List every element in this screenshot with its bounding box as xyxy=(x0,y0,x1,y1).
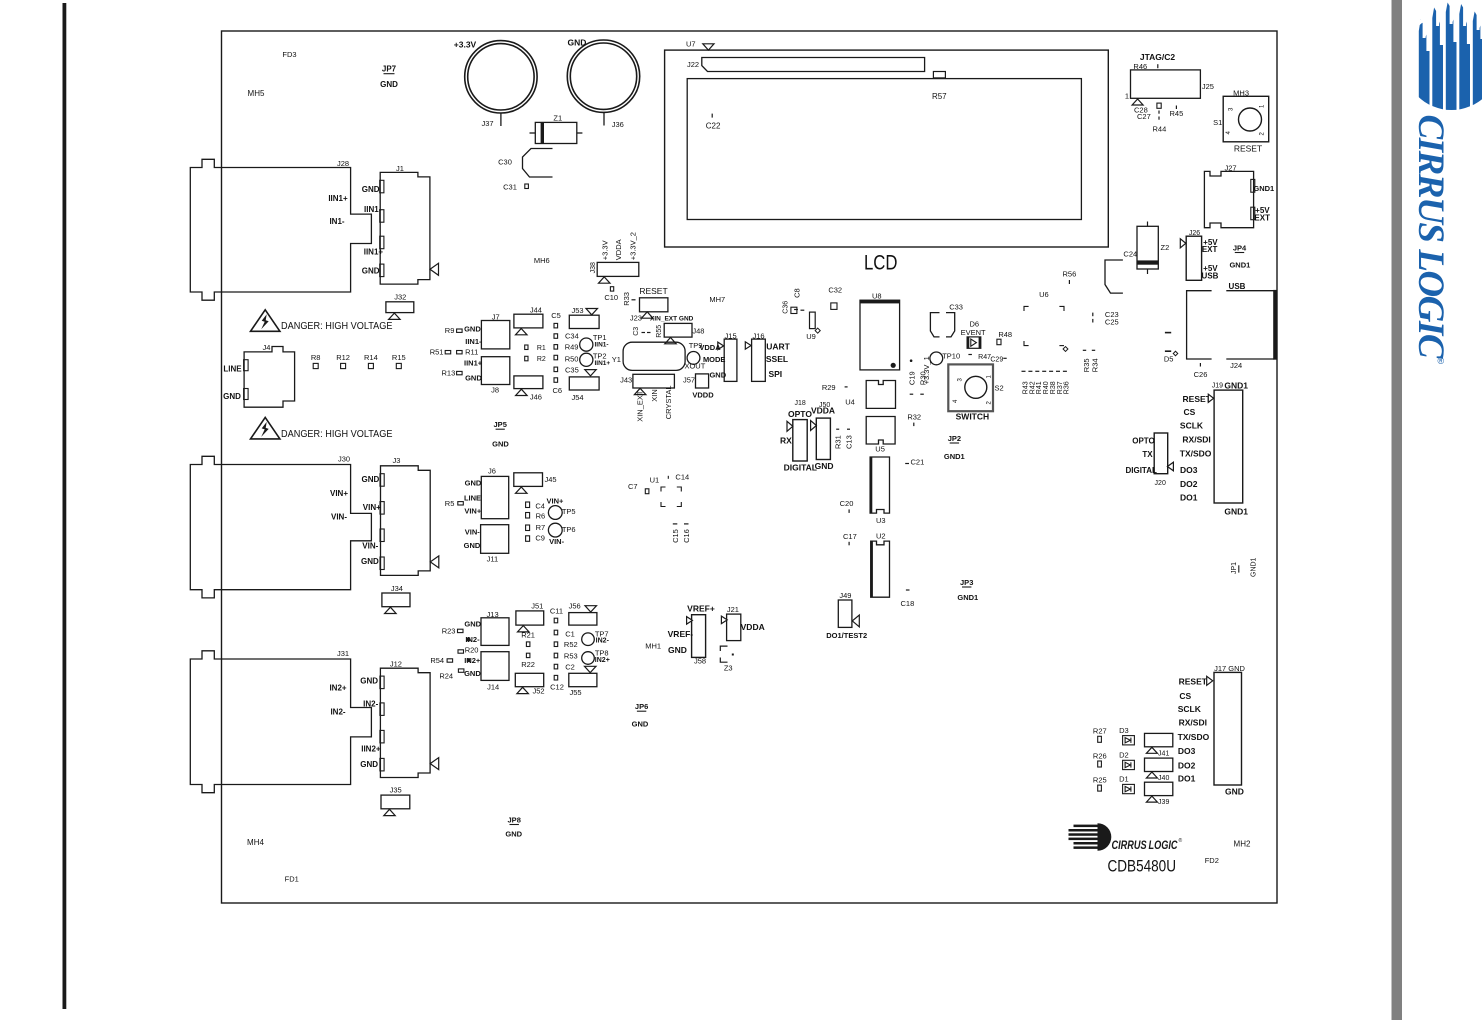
svg-text:R29: R29 xyxy=(822,383,836,392)
svg-text:GND: GND xyxy=(492,439,509,448)
testpoint TP1 xyxy=(580,338,593,351)
testpoint TP7 xyxy=(582,633,595,646)
svg-text:®: ® xyxy=(1438,356,1445,366)
svg-text:IIN1-: IIN1- xyxy=(465,337,482,346)
svg-text:R57: R57 xyxy=(932,92,947,101)
svg-text:R1: R1 xyxy=(537,345,546,352)
svg-text:J34: J34 xyxy=(391,584,403,593)
svg-text:J35: J35 xyxy=(390,786,402,795)
svg-text:J38: J38 xyxy=(590,262,597,273)
svg-text:R11: R11 xyxy=(465,347,478,356)
connector J20 xyxy=(1154,433,1168,474)
svg-text:GND: GND xyxy=(380,80,398,89)
board outline xyxy=(222,31,1278,903)
diode D5 xyxy=(1165,332,1171,334)
svg-text:J16: J16 xyxy=(752,332,764,341)
svg-text:J23: J23 xyxy=(630,314,642,323)
svg-text:C32: C32 xyxy=(828,286,842,295)
connector J30 xyxy=(190,456,371,598)
capacitor C4 xyxy=(526,502,530,508)
svg-text:IN2-: IN2- xyxy=(330,708,345,717)
svg-text:IIN1-: IIN1- xyxy=(595,342,609,349)
jumper J43 xyxy=(633,374,675,388)
IC U4 xyxy=(866,381,895,409)
svg-text:C1: C1 xyxy=(565,629,575,638)
switch S2 xyxy=(948,364,993,411)
svg-text:VIN+: VIN+ xyxy=(363,503,381,512)
svg-text:GND1: GND1 xyxy=(1251,557,1258,577)
connector J17 xyxy=(1214,672,1242,785)
svg-text:U4: U4 xyxy=(845,397,855,406)
capacitor C15 label xyxy=(673,523,678,525)
resistor R8 xyxy=(313,363,318,368)
svg-text:DO3: DO3 xyxy=(1178,746,1196,756)
svg-text:Y1: Y1 xyxy=(612,355,621,364)
jumper J44 xyxy=(514,314,543,328)
jumper J35 xyxy=(381,795,410,809)
U7 marker xyxy=(703,44,714,50)
svg-text:R53: R53 xyxy=(564,652,578,661)
svg-text:JP2: JP2 xyxy=(948,434,961,443)
capacitor C21 xyxy=(905,463,909,465)
svg-text:TX: TX xyxy=(1142,450,1153,459)
svg-text:IIN1+: IIN1+ xyxy=(328,194,348,203)
svg-text:MODE: MODE xyxy=(703,355,726,364)
svg-text:J14: J14 xyxy=(487,682,499,691)
svg-text:R24: R24 xyxy=(439,672,453,681)
resistor row R36-R43 pads xyxy=(1022,370,1026,372)
svg-text:C19: C19 xyxy=(907,371,916,385)
svg-text:C17: C17 xyxy=(843,532,857,541)
svg-text:R47: R47 xyxy=(978,354,991,361)
resistor R1 xyxy=(525,345,528,350)
connector J27 xyxy=(1204,171,1253,227)
svg-text:C14: C14 xyxy=(675,473,689,482)
svg-text:IIN1-: IIN1- xyxy=(364,205,382,214)
svg-text:CIRRUS LOGIC: CIRRUS LOGIC xyxy=(1112,840,1179,852)
connector J7 xyxy=(481,321,509,349)
svg-text:R32: R32 xyxy=(907,412,921,421)
svg-text:J19: J19 xyxy=(1212,383,1223,390)
svg-text:LINE: LINE xyxy=(464,493,481,502)
svg-text:C22: C22 xyxy=(706,122,721,131)
svg-text:J54: J54 xyxy=(571,393,583,402)
connector J21 xyxy=(727,614,741,641)
testpoint TP5 xyxy=(548,506,562,520)
svg-text:Z1: Z1 xyxy=(553,114,562,123)
connector J13 xyxy=(481,618,509,646)
svg-text:R55: R55 xyxy=(656,325,663,338)
IC U8 xyxy=(860,300,900,370)
svg-text:J48: J48 xyxy=(692,326,704,335)
svg-text:J36: J36 xyxy=(612,120,624,129)
svg-text:EVENT: EVENT xyxy=(961,328,986,337)
svg-text:D1: D1 xyxy=(1119,775,1129,784)
svg-text:R52: R52 xyxy=(564,640,578,649)
svg-text:RESET: RESET xyxy=(1234,144,1262,154)
jumper J40 xyxy=(1145,758,1173,771)
svg-text:GND1: GND1 xyxy=(1253,184,1274,193)
testpoint TP9 xyxy=(687,352,700,365)
switch S1 xyxy=(1223,96,1269,142)
svg-text:C15: C15 xyxy=(671,529,680,543)
svg-text:TP6: TP6 xyxy=(562,525,576,534)
svg-text:R6: R6 xyxy=(536,511,546,520)
svg-text:J25: J25 xyxy=(1202,82,1214,91)
svg-text:J51: J51 xyxy=(531,601,543,610)
svg-text:GND: GND xyxy=(360,676,378,685)
svg-text:J4: J4 xyxy=(262,343,270,352)
capacitor C9 xyxy=(526,536,530,542)
svg-text:J17 GND: J17 GND xyxy=(1214,664,1245,673)
svg-text:GND1: GND1 xyxy=(957,593,978,602)
svg-text:J32: J32 xyxy=(394,292,406,301)
jumper J23 reset xyxy=(640,298,668,312)
svg-text:J46: J46 xyxy=(530,392,542,401)
svg-text:J58: J58 xyxy=(694,657,706,666)
left page rule xyxy=(63,3,67,1009)
svg-text:D6: D6 xyxy=(970,319,980,328)
connector J49 xyxy=(838,600,852,627)
resistor R6 xyxy=(526,513,530,519)
svg-text:RESET: RESET xyxy=(639,286,667,296)
svg-text:J45: J45 xyxy=(544,475,556,484)
connector J12 xyxy=(380,668,430,777)
svg-text:VIN-: VIN- xyxy=(331,513,347,522)
IC U2 xyxy=(871,541,890,597)
svg-text:R20: R20 xyxy=(465,645,479,654)
svg-text:FD2: FD2 xyxy=(1205,856,1219,865)
svg-text:R13: R13 xyxy=(442,368,456,377)
svg-text:GND: GND xyxy=(464,669,481,678)
svg-text:J56: J56 xyxy=(569,601,581,610)
svg-text:R45: R45 xyxy=(1170,109,1184,118)
jumper J56 xyxy=(585,606,597,612)
connector J6 xyxy=(481,476,508,518)
capacitor C22 tick xyxy=(711,114,713,118)
svg-text:SCLK: SCLK xyxy=(1180,420,1204,430)
jumper J57 xyxy=(696,374,709,388)
capacitor C33 xyxy=(930,313,954,337)
svg-text:GND: GND xyxy=(360,760,378,769)
capacitor C18 xyxy=(906,589,910,591)
svg-text:DANGER: HIGH VOLTAGE: DANGER: HIGH VOLTAGE xyxy=(281,320,393,332)
svg-text:J28: J28 xyxy=(337,159,349,168)
svg-text:R22: R22 xyxy=(521,660,535,669)
svg-text:IN1-: IN1- xyxy=(329,217,344,226)
svg-text:J43: J43 xyxy=(620,376,632,385)
svg-text:R33: R33 xyxy=(622,292,631,306)
svg-text:DANGER: HIGH VOLTAGE: DANGER: HIGH VOLTAGE xyxy=(281,428,393,440)
svg-text:J13: J13 xyxy=(487,610,499,619)
svg-text:VIN+: VIN+ xyxy=(547,497,565,506)
svg-text:MH4: MH4 xyxy=(247,838,264,847)
svg-text:CIRRUS LOGIC: CIRRUS LOGIC xyxy=(1410,115,1451,360)
svg-text:SPI: SPI xyxy=(768,369,782,379)
svg-text:R30: R30 xyxy=(918,371,927,385)
svg-text:C6: C6 xyxy=(553,386,563,395)
svg-text:R36: R36 xyxy=(1064,381,1071,394)
svg-text:VIN+: VIN+ xyxy=(330,489,348,498)
svg-text:J12: J12 xyxy=(390,659,402,668)
capacitor C10 xyxy=(610,287,613,291)
svg-text:LCD: LCD xyxy=(864,252,898,275)
svg-text:C29: C29 xyxy=(990,356,1003,363)
svg-text:R51: R51 xyxy=(430,347,444,356)
svg-text:CS: CS xyxy=(1179,691,1191,701)
svg-text:MH6: MH6 xyxy=(534,256,550,265)
connector J28 xyxy=(190,159,371,300)
svg-text:IN2+: IN2+ xyxy=(329,684,346,693)
svg-text:USB: USB xyxy=(1202,272,1219,281)
connector J1 xyxy=(380,172,430,284)
svg-text:GND1: GND1 xyxy=(1224,380,1248,390)
svg-text:FD1: FD1 xyxy=(285,875,299,884)
svg-text:DIGITAL: DIGITAL xyxy=(1125,466,1157,475)
svg-text:U8: U8 xyxy=(872,291,882,300)
svg-text:XIN_EXT: XIN_EXT xyxy=(636,390,645,422)
svg-text:DO1: DO1 xyxy=(1178,773,1196,783)
svg-text:U9: U9 xyxy=(806,332,816,341)
Cirrus Logic cloud logo xyxy=(1419,3,1482,113)
svg-text:J3: J3 xyxy=(392,456,400,465)
LCD window xyxy=(687,79,1081,220)
svg-text:GND: GND xyxy=(568,38,587,48)
svg-text:VREF+: VREF+ xyxy=(687,603,715,613)
svg-text:IN2-: IN2- xyxy=(363,700,378,709)
svg-text:C30: C30 xyxy=(498,158,512,167)
svg-text:R25: R25 xyxy=(1093,775,1107,784)
svg-text:JP4: JP4 xyxy=(1233,244,1247,253)
connector J14 xyxy=(481,652,509,681)
svg-text:S2: S2 xyxy=(995,384,1004,393)
svg-text:C11: C11 xyxy=(550,606,563,615)
jumper J45 xyxy=(514,473,543,487)
svg-text:DO3: DO3 xyxy=(1180,465,1198,475)
svg-text:VIN+: VIN+ xyxy=(464,507,482,516)
svg-text:CRYSTAL: CRYSTAL xyxy=(664,385,673,419)
svg-text:VDDD: VDDD xyxy=(692,390,714,399)
right grey sidebar xyxy=(1392,0,1403,1020)
svg-text:C16: C16 xyxy=(682,529,691,543)
jumper J46 xyxy=(514,376,543,389)
svg-text:J15: J15 xyxy=(725,332,737,341)
svg-text:SCLK: SCLK xyxy=(1178,704,1202,714)
svg-text:R5: R5 xyxy=(445,499,455,508)
resistor R12 xyxy=(341,363,346,368)
svg-text:J52: J52 xyxy=(532,687,544,696)
svg-text:R34: R34 xyxy=(1091,358,1100,372)
svg-text:S1: S1 xyxy=(1213,118,1222,127)
resistor R57 xyxy=(933,72,945,78)
svg-text:C8: C8 xyxy=(793,288,802,298)
svg-text:R7: R7 xyxy=(536,523,546,532)
svg-text:CDB5480U: CDB5480U xyxy=(1108,858,1177,876)
connector J4 xyxy=(244,347,295,408)
IC U9 xyxy=(810,312,816,329)
svg-text:C10: C10 xyxy=(604,293,618,302)
svg-text:GND: GND xyxy=(464,541,481,550)
svg-text:MH2: MH2 xyxy=(1234,840,1251,849)
testpoint TP10 xyxy=(930,352,943,365)
connector J11 xyxy=(481,525,509,554)
testpoint TP2 xyxy=(580,353,593,366)
connector J31 xyxy=(190,651,371,793)
svg-text:GND: GND xyxy=(709,370,726,379)
svg-text:C27: C27 xyxy=(1137,112,1151,121)
testpoint TP6 xyxy=(548,523,562,537)
svg-text:J21: J21 xyxy=(727,605,739,614)
svg-text:J55: J55 xyxy=(569,688,581,697)
svg-text:C5: C5 xyxy=(551,311,561,320)
svg-text:C35: C35 xyxy=(565,366,579,375)
resistor R20 square xyxy=(458,650,464,653)
svg-text:SSEL: SSEL xyxy=(766,354,788,364)
jumper marker J25 xyxy=(1132,99,1143,105)
diode Z2 xyxy=(1137,222,1158,275)
svg-text:JP8: JP8 xyxy=(508,816,521,825)
svg-text:GND: GND xyxy=(505,830,522,839)
svg-text:GND: GND xyxy=(1225,786,1244,796)
svg-text:U3: U3 xyxy=(876,516,886,525)
svg-text:MH1: MH1 xyxy=(645,642,661,651)
resistor R44 xyxy=(1157,103,1161,108)
svg-text:IN2-: IN2- xyxy=(596,638,610,645)
svg-text:J53: J53 xyxy=(571,306,583,315)
svg-text:GND1: GND1 xyxy=(1224,507,1248,517)
svg-text:XIN: XIN xyxy=(650,389,659,402)
svg-text:IIN1+: IIN1+ xyxy=(595,360,611,367)
jumper J54 xyxy=(585,370,596,376)
svg-text:R23: R23 xyxy=(442,627,456,636)
svg-text:SWITCH: SWITCH xyxy=(956,411,990,421)
svg-text:DO1: DO1 xyxy=(1180,493,1198,503)
crystal Y1 xyxy=(623,342,685,370)
svg-text:R31: R31 xyxy=(833,435,842,449)
jumper J32 xyxy=(386,302,414,313)
LCD module outline xyxy=(665,50,1109,247)
capacitor C31 xyxy=(525,184,529,189)
svg-text:J49: J49 xyxy=(839,591,851,600)
svg-text:+3.3V_2: +3.3V_2 xyxy=(629,232,638,260)
svg-text:TP10: TP10 xyxy=(942,351,960,360)
svg-text:VDDA: VDDA xyxy=(614,239,623,260)
svg-text:GND: GND xyxy=(464,324,481,333)
svg-text:VDDA: VDDA xyxy=(741,622,765,632)
connector J3 xyxy=(381,466,431,576)
svg-text:C31: C31 xyxy=(503,182,517,191)
svg-text:VREF-: VREF- xyxy=(668,629,694,639)
svg-text:D2: D2 xyxy=(1119,751,1129,760)
svg-text:C13: C13 xyxy=(845,435,854,449)
svg-text:R2: R2 xyxy=(537,356,546,363)
svg-text:DO2: DO2 xyxy=(1180,479,1198,489)
resistor R7 xyxy=(526,525,530,531)
capacitor C24 xyxy=(1105,260,1123,293)
svg-text:RESET: RESET xyxy=(1183,394,1212,404)
svg-text:J37: J37 xyxy=(481,119,493,128)
svg-text:J18: J18 xyxy=(794,400,805,407)
svg-text:J6: J6 xyxy=(488,467,496,476)
svg-text:C3: C3 xyxy=(633,327,640,336)
svg-text:GND: GND xyxy=(223,392,241,401)
svg-text:R9: R9 xyxy=(445,326,455,335)
testpoint TP8 xyxy=(582,652,595,665)
svg-text:C26: C26 xyxy=(1194,370,1208,379)
connector J8 xyxy=(481,357,509,385)
svg-text:C24: C24 xyxy=(1123,250,1137,259)
svg-text:UART: UART xyxy=(766,342,790,352)
svg-text:RX/SDI: RX/SDI xyxy=(1182,435,1210,445)
svg-text:RX/SDI: RX/SDI xyxy=(1179,718,1207,728)
svg-text:J24: J24 xyxy=(1230,361,1242,370)
IC U5 xyxy=(866,417,895,445)
svg-text:EXT: EXT xyxy=(1254,213,1270,222)
svg-text:VDDA: VDDA xyxy=(699,343,721,352)
svg-text:R15: R15 xyxy=(392,353,406,362)
svg-text:J41: J41 xyxy=(1158,750,1169,757)
svg-text:R14: R14 xyxy=(364,353,378,362)
svg-text:C12: C12 xyxy=(550,682,564,691)
svg-text:J57: J57 xyxy=(683,375,695,384)
svg-text:J7: J7 xyxy=(492,313,500,322)
svg-text:CS: CS xyxy=(1183,407,1195,417)
IC U6 footprint corners xyxy=(1024,306,1064,345)
connector J16 xyxy=(752,339,766,381)
connector J25 xyxy=(1131,70,1201,98)
svg-text:VIN-: VIN- xyxy=(362,542,378,551)
jumper J39 xyxy=(1145,782,1173,795)
svg-text:VDDA: VDDA xyxy=(811,406,835,416)
svg-text:JP7: JP7 xyxy=(382,65,397,74)
svg-text:R27: R27 xyxy=(1093,727,1107,736)
svg-text:+3.3V: +3.3V xyxy=(454,40,477,50)
diode Z1 xyxy=(530,122,583,143)
svg-text:TX/SDO: TX/SDO xyxy=(1180,448,1212,458)
svg-text:C7: C7 xyxy=(628,482,638,491)
svg-text:®: ® xyxy=(1179,837,1183,844)
svg-text:GND: GND xyxy=(362,267,380,276)
svg-text:C34: C34 xyxy=(565,331,579,340)
svg-text:IN2+: IN2+ xyxy=(595,657,610,664)
connector USB J24 xyxy=(1187,291,1274,359)
pad near R54 xyxy=(467,658,471,662)
svg-text:J8: J8 xyxy=(491,385,499,394)
svg-text:C36: C36 xyxy=(783,301,790,314)
svg-text:1: 1 xyxy=(1125,91,1129,100)
resistor R2 xyxy=(525,356,528,361)
svg-text:J22: J22 xyxy=(687,60,699,69)
svg-text:J31: J31 xyxy=(337,649,349,658)
svg-text:GND: GND xyxy=(464,620,481,629)
svg-text:D5: D5 xyxy=(1164,355,1174,364)
jumper J52 xyxy=(515,673,543,686)
Cirrus Logic ball logo xyxy=(1069,823,1112,851)
svg-text:J11: J11 xyxy=(487,555,499,564)
svg-text:VIN-: VIN- xyxy=(549,537,565,546)
svg-text:R54: R54 xyxy=(430,656,444,665)
resistor R14 xyxy=(368,363,373,368)
svg-text:C18: C18 xyxy=(901,599,915,608)
jumper J53 xyxy=(586,309,598,315)
svg-text:USB: USB xyxy=(1229,282,1246,291)
svg-text:R12: R12 xyxy=(336,353,350,362)
jumper J55 xyxy=(585,666,597,672)
svg-text:GND: GND xyxy=(465,374,482,383)
connector J58 xyxy=(692,615,706,658)
svg-text:R21: R21 xyxy=(521,631,535,640)
svg-text:GND: GND xyxy=(632,720,649,729)
